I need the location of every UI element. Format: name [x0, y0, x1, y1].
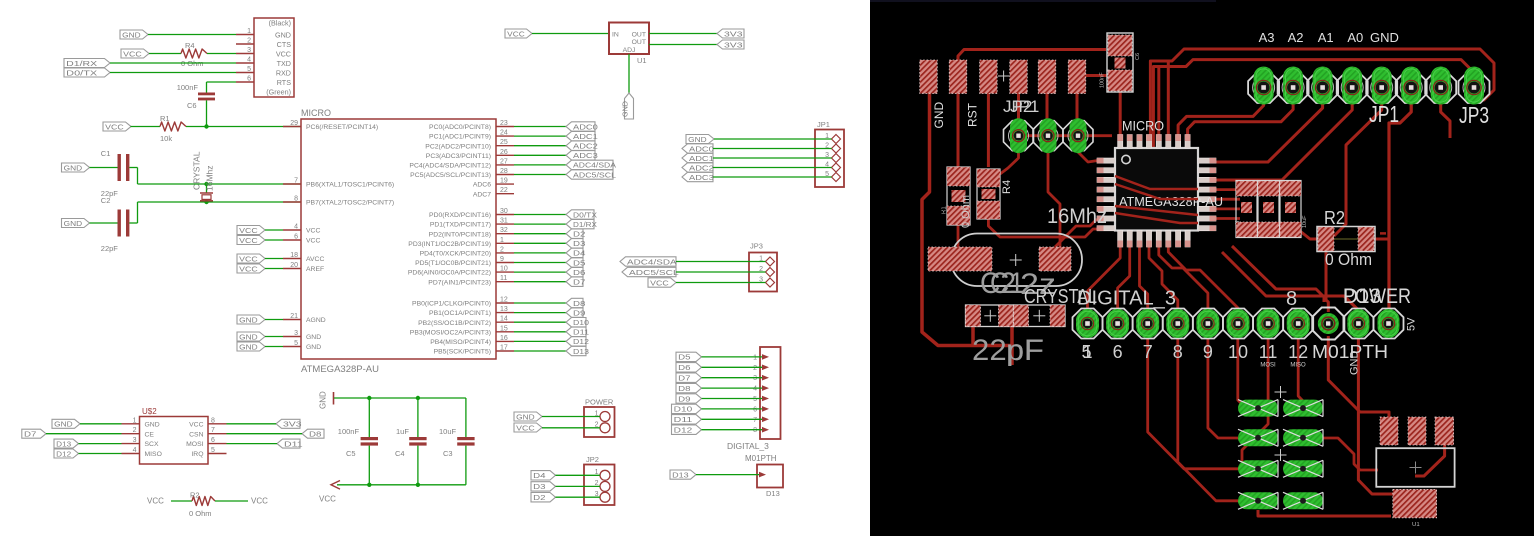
- svg-text:D5: D5: [573, 258, 585, 267]
- svg-text:PD4(T0/XCK/PCINT20): PD4(T0/XCK/PCINT20): [420, 251, 491, 258]
- svg-text:3V3: 3V3: [283, 420, 302, 429]
- svg-text:U$2: U$2: [142, 407, 157, 416]
- svg-text:6: 6: [753, 406, 757, 413]
- svg-text:JP1: JP1: [1010, 97, 1039, 116]
- svg-text:GND: GND: [516, 412, 535, 421]
- svg-text:PD1(TXD/PCINT17): PD1(TXD/PCINT17): [430, 222, 491, 229]
- svg-text:GND: GND: [319, 391, 328, 409]
- svg-text:C3: C3: [443, 449, 453, 458]
- svg-text:1: 1: [247, 28, 251, 35]
- svg-text:R1: R1: [160, 114, 170, 123]
- svg-text:10uF: 10uF: [1302, 215, 1308, 228]
- svg-text:MOSI: MOSI: [1260, 363, 1276, 369]
- svg-text:3: 3: [753, 375, 757, 382]
- svg-text:JP3: JP3: [750, 242, 763, 251]
- svg-text:11: 11: [500, 275, 507, 282]
- svg-text:9: 9: [1203, 342, 1213, 362]
- svg-text:GND: GND: [64, 163, 83, 172]
- svg-text:12: 12: [1288, 342, 1308, 362]
- svg-text:4: 4: [133, 447, 137, 454]
- svg-text:GND: GND: [275, 30, 291, 39]
- svg-text:D1/RX: D1/RX: [66, 59, 97, 68]
- svg-text:MICRO: MICRO: [1122, 118, 1164, 134]
- svg-text:pF: pF: [1006, 334, 1044, 367]
- svg-text:PB7(XTAL2/TOSC2/PCINT7): PB7(XTAL2/TOSC2/PCINT7): [306, 200, 394, 207]
- svg-text:21: 21: [290, 313, 298, 320]
- svg-text:DIGITAL_3: DIGITAL_3: [1077, 288, 1176, 310]
- svg-text:PD0(RXD/PCINT16): PD0(RXD/PCINT16): [429, 212, 491, 219]
- svg-text:GND: GND: [239, 315, 258, 324]
- svg-text:TXD: TXD: [277, 59, 291, 68]
- svg-text:8: 8: [294, 196, 298, 203]
- svg-text:GND: GND: [122, 30, 141, 39]
- svg-text:D11: D11: [284, 439, 303, 448]
- svg-text:3V3: 3V3: [724, 40, 743, 49]
- svg-text:100nF: 100nF: [338, 427, 360, 436]
- svg-text:AGND: AGND: [306, 317, 326, 324]
- svg-text:17: 17: [500, 345, 508, 352]
- svg-text:VCC: VCC: [516, 423, 535, 432]
- svg-text:PC2(ADC2/PCINT10): PC2(ADC2/PCINT10): [425, 143, 491, 150]
- svg-text:13: 13: [500, 306, 508, 313]
- svg-text:D9: D9: [573, 308, 585, 317]
- svg-text:A3: A3: [1259, 30, 1275, 45]
- svg-text:14: 14: [500, 316, 508, 323]
- svg-text:GND: GND: [1370, 30, 1399, 45]
- svg-text:PC4(ADC4/SDA/PCINT12): PC4(ADC4/SDA/PCINT12): [409, 163, 491, 170]
- svg-text:D10: D10: [674, 405, 693, 414]
- svg-text:ATMEGA328P-AU: ATMEGA328P-AU: [1119, 194, 1223, 209]
- svg-text:4: 4: [247, 57, 251, 64]
- svg-text:POWER: POWER: [585, 398, 614, 407]
- svg-text:9: 9: [500, 256, 504, 263]
- svg-text:RST: RST: [966, 102, 980, 127]
- svg-text:3: 3: [294, 330, 298, 337]
- svg-text:5: 5: [753, 396, 757, 403]
- svg-text:16Mhz: 16Mhz: [1047, 205, 1107, 228]
- svg-text:SCX: SCX: [145, 441, 159, 448]
- svg-text:D13: D13: [766, 489, 780, 498]
- svg-text:VCC: VCC: [189, 421, 203, 428]
- svg-text:VCC: VCC: [239, 226, 258, 235]
- svg-text:R1: R1: [942, 206, 948, 214]
- svg-text:1: 1: [753, 354, 757, 361]
- svg-text:A1: A1: [1318, 30, 1334, 45]
- svg-text:D13: D13: [56, 439, 71, 448]
- svg-text:GND: GND: [239, 342, 258, 351]
- svg-text:RTS: RTS: [277, 78, 291, 87]
- svg-text:15: 15: [500, 325, 508, 332]
- svg-text:PB5(SCK/PCINT5): PB5(SCK/PCINT5): [434, 349, 491, 356]
- svg-text:D13: D13: [573, 347, 589, 356]
- svg-text:10: 10: [1228, 342, 1248, 362]
- svg-text:24: 24: [500, 130, 508, 137]
- svg-text:27: 27: [500, 158, 508, 165]
- svg-text:0 Ohm: 0 Ohm: [960, 195, 972, 228]
- svg-text:7: 7: [211, 427, 215, 434]
- svg-text:D8: D8: [573, 299, 585, 308]
- svg-text:GND: GND: [306, 344, 321, 351]
- svg-text:ADC4/SDA: ADC4/SDA: [573, 161, 616, 170]
- svg-text:8: 8: [211, 417, 215, 424]
- svg-text:A2: A2: [1288, 30, 1304, 45]
- svg-text:D2: D2: [533, 493, 545, 502]
- svg-text:VCC: VCC: [239, 236, 258, 245]
- svg-text:7: 7: [1143, 342, 1153, 362]
- svg-text:C1: C1: [101, 149, 111, 158]
- svg-text:PC5(ADC5/SCL/PCINT13): PC5(ADC5/SCL/PCINT13): [410, 172, 491, 179]
- svg-text:VCC: VCC: [650, 278, 669, 287]
- svg-text:PD7(AIN1/PCINT23): PD7(AIN1/PCINT23): [428, 279, 491, 286]
- svg-text:C6: C6: [187, 101, 197, 110]
- svg-text:VCC: VCC: [123, 49, 142, 58]
- svg-text:1uF: 1uF: [396, 427, 409, 436]
- svg-text:R4: R4: [1001, 180, 1013, 194]
- svg-text:VCC: VCC: [147, 497, 164, 506]
- svg-text:C1: C1: [990, 267, 1024, 300]
- svg-text:4: 4: [294, 224, 298, 231]
- svg-text:6: 6: [1113, 342, 1123, 362]
- svg-text:PB0(ICP1/CLKO/PCINT0): PB0(ICP1/CLKO/PCINT0): [412, 301, 491, 308]
- svg-text:5V: 5V: [1406, 317, 1418, 331]
- svg-text:CTS: CTS: [277, 40, 292, 49]
- svg-text:C5: C5: [346, 449, 356, 458]
- svg-text:MISO: MISO: [1290, 363, 1306, 369]
- svg-text:D12: D12: [56, 449, 71, 458]
- svg-text:PC6(/RESET/PCINT14): PC6(/RESET/PCINT14): [306, 124, 378, 131]
- svg-text:PD5(T1/OC0B/PCINT21): PD5(T1/OC0B/PCINT21): [415, 260, 491, 267]
- svg-text:D13: D13: [1343, 285, 1381, 308]
- svg-text:D6: D6: [573, 268, 585, 277]
- svg-text:32: 32: [500, 227, 508, 234]
- svg-text:12: 12: [500, 297, 508, 304]
- svg-text:C6: C6: [1135, 53, 1141, 60]
- svg-text:PC1(ADC1/PCINT9): PC1(ADC1/PCINT9): [429, 134, 491, 141]
- svg-text:23: 23: [500, 120, 508, 127]
- svg-text:GND: GND: [1349, 351, 1361, 376]
- svg-text:D8: D8: [309, 430, 321, 439]
- svg-text:CRYSTAL: CRYSTAL: [192, 151, 202, 190]
- svg-text:VCC: VCC: [319, 495, 336, 504]
- svg-text:ADC2: ADC2: [689, 163, 714, 172]
- svg-text:ADC1: ADC1: [689, 154, 714, 163]
- svg-text:8: 8: [1173, 342, 1183, 362]
- svg-text:JP2: JP2: [586, 455, 599, 464]
- svg-text:28: 28: [500, 168, 508, 175]
- svg-text:5: 5: [247, 66, 251, 73]
- svg-text:5: 5: [294, 340, 298, 347]
- svg-text:OUT: OUT: [632, 39, 646, 46]
- svg-text:D2: D2: [573, 230, 585, 239]
- svg-text:MOSI: MOSI: [186, 441, 203, 448]
- svg-text:IRQ: IRQ: [191, 451, 203, 458]
- svg-text:D10: D10: [573, 318, 589, 327]
- svg-text:DIGITAL_3: DIGITAL_3: [727, 441, 769, 451]
- svg-text:D3: D3: [573, 239, 585, 248]
- svg-text:GND: GND: [64, 219, 83, 228]
- svg-text:D5: D5: [678, 353, 690, 362]
- svg-text:10: 10: [500, 266, 508, 273]
- svg-text:D0/TX: D0/TX: [66, 68, 97, 77]
- svg-text:ADC0: ADC0: [689, 144, 714, 153]
- svg-text:VCC: VCC: [276, 49, 291, 58]
- svg-text:ADC5/SCL: ADC5/SCL: [629, 268, 679, 277]
- svg-text:D0/TX: D0/TX: [573, 210, 597, 219]
- svg-text:26: 26: [500, 149, 508, 156]
- svg-text:16: 16: [500, 335, 508, 342]
- svg-text:GND: GND: [306, 334, 321, 341]
- svg-text:VCC: VCC: [507, 29, 525, 38]
- svg-text:CSN: CSN: [189, 431, 203, 438]
- svg-text:VCC: VCC: [306, 238, 320, 245]
- svg-text:D8: D8: [678, 384, 690, 393]
- svg-text:PB3(MOSI/OC2A/PCINT3): PB3(MOSI/OC2A/PCINT3): [410, 329, 491, 336]
- svg-text:MISO: MISO: [145, 451, 162, 458]
- svg-text:D1/RX: D1/RX: [573, 220, 597, 229]
- svg-text:GND: GND: [620, 101, 629, 117]
- svg-text:IN: IN: [612, 32, 619, 39]
- svg-text:D12: D12: [674, 426, 693, 435]
- svg-text:D11: D11: [573, 328, 589, 337]
- svg-text:18: 18: [290, 252, 298, 259]
- svg-text:JP1: JP1: [817, 120, 830, 129]
- svg-text:JP3: JP3: [1459, 102, 1489, 128]
- svg-text:VCC: VCC: [105, 122, 124, 131]
- svg-text:PD3(INT1/OC2B/PCINT19): PD3(INT1/OC2B/PCINT19): [408, 241, 491, 248]
- svg-text:ADC3: ADC3: [573, 151, 598, 160]
- svg-text:ADC3: ADC3: [689, 173, 714, 182]
- svg-text:D12: D12: [573, 337, 589, 346]
- svg-text:C2: C2: [101, 196, 111, 205]
- svg-text:6: 6: [294, 234, 298, 241]
- svg-text:ADC6: ADC6: [473, 182, 491, 189]
- svg-text:D7: D7: [24, 430, 36, 439]
- svg-text:D4: D4: [573, 249, 585, 258]
- svg-text:16Mhz: 16Mhz: [205, 165, 215, 191]
- svg-text:JP1: JP1: [1369, 101, 1399, 127]
- svg-text:AVCC: AVCC: [306, 256, 324, 263]
- svg-text:C4: C4: [395, 449, 405, 458]
- svg-text:D7: D7: [573, 278, 585, 287]
- svg-text:0 Ohm: 0 Ohm: [1325, 250, 1372, 269]
- svg-text:PB6(XTAL1/TOSC1/PCINT6): PB6(XTAL1/TOSC1/PCINT6): [306, 182, 394, 189]
- svg-text:10uF: 10uF: [439, 427, 457, 436]
- svg-text:(Green): (Green): [266, 87, 291, 96]
- svg-text:2: 2: [133, 427, 137, 434]
- svg-text:5: 5: [1081, 342, 1091, 362]
- svg-text:1: 1: [133, 417, 137, 424]
- svg-text:AREF: AREF: [306, 266, 324, 273]
- svg-text:ATMEGA328P-AU: ATMEGA328P-AU: [301, 364, 379, 375]
- svg-text:D9: D9: [678, 394, 690, 403]
- svg-text:VCC: VCC: [239, 264, 258, 273]
- svg-text:D7: D7: [678, 374, 690, 383]
- svg-text:GND: GND: [145, 421, 160, 428]
- svg-text:PD2(INT0/PCINT18): PD2(INT0/PCINT18): [429, 231, 491, 238]
- svg-text:100nF: 100nF: [1100, 72, 1106, 88]
- svg-text:5: 5: [211, 447, 215, 454]
- svg-text:PB2(SS/OC1B/PCINT2): PB2(SS/OC1B/PCINT2): [418, 320, 491, 327]
- svg-text:29: 29: [290, 120, 298, 127]
- svg-text:100nF: 100nF: [177, 83, 199, 92]
- svg-text:VCC: VCC: [239, 254, 258, 263]
- svg-text:0 Ohm: 0 Ohm: [189, 509, 212, 518]
- svg-text:U1: U1: [1412, 522, 1420, 528]
- svg-text:OUT: OUT: [632, 32, 646, 39]
- svg-text:CE: CE: [145, 431, 155, 438]
- svg-text:GND: GND: [239, 332, 258, 341]
- svg-text:A0: A0: [1347, 30, 1363, 45]
- svg-text:ADC7: ADC7: [473, 191, 491, 198]
- svg-text:D11: D11: [674, 415, 693, 424]
- svg-text:10k: 10k: [160, 134, 172, 143]
- svg-text:PB1(OC1A/PCINT1): PB1(OC1A/PCINT1): [429, 310, 491, 317]
- svg-text:31: 31: [500, 218, 508, 225]
- svg-text:11: 11: [1259, 342, 1278, 362]
- svg-text:ADC0: ADC0: [573, 122, 598, 131]
- svg-text:2: 2: [247, 38, 251, 45]
- svg-text:PC3(ADC3/PCINT11): PC3(ADC3/PCINT11): [426, 153, 491, 160]
- svg-text:4: 4: [753, 386, 757, 393]
- svg-text:(Black): (Black): [269, 18, 291, 27]
- svg-text:ADC2: ADC2: [573, 142, 598, 151]
- svg-text:D13: D13: [672, 470, 689, 479]
- svg-text:8: 8: [1286, 288, 1297, 310]
- svg-text:R2: R2: [1324, 208, 1345, 228]
- svg-text:U1: U1: [637, 56, 647, 65]
- svg-text:19: 19: [500, 178, 508, 185]
- svg-text:2: 2: [753, 365, 757, 372]
- svg-text:PB4(MISO/PCINT4): PB4(MISO/PCINT4): [430, 339, 491, 346]
- svg-text:GND: GND: [932, 102, 946, 129]
- svg-text:D3: D3: [533, 482, 545, 491]
- svg-text:1: 1: [500, 237, 504, 244]
- svg-text:2: 2: [500, 246, 504, 253]
- svg-text:3: 3: [247, 47, 251, 54]
- svg-text:8: 8: [753, 427, 757, 434]
- svg-text:ADC5/SCL: ADC5/SCL: [573, 170, 616, 179]
- svg-text:PD6(AIN0/OC0A/PCINT22): PD6(AIN0/OC0A/PCINT22): [408, 270, 491, 277]
- svg-text:R4: R4: [185, 41, 195, 50]
- svg-text:MICRO: MICRO: [301, 108, 331, 118]
- svg-text:M01PTH: M01PTH: [745, 454, 777, 463]
- svg-text:25: 25: [500, 139, 508, 146]
- svg-text:VCC: VCC: [306, 228, 320, 235]
- svg-text:30: 30: [500, 208, 508, 215]
- svg-text:3V3: 3V3: [724, 29, 743, 38]
- svg-text:R2: R2: [190, 491, 200, 500]
- svg-text:20: 20: [290, 262, 298, 269]
- svg-text:7: 7: [294, 178, 298, 185]
- svg-text:22pF: 22pF: [101, 244, 119, 253]
- svg-text:22: 22: [500, 187, 508, 194]
- svg-text:VCC: VCC: [251, 497, 268, 506]
- svg-text:6: 6: [247, 76, 251, 83]
- svg-text:ADC4/SDA: ADC4/SDA: [627, 257, 677, 266]
- svg-text:GND: GND: [688, 135, 707, 144]
- svg-text:3: 3: [133, 437, 137, 444]
- svg-text:7: 7: [753, 417, 757, 424]
- svg-text:ADJ: ADJ: [623, 47, 636, 54]
- svg-text:D6: D6: [678, 363, 690, 372]
- svg-text:ADC1: ADC1: [573, 132, 598, 141]
- svg-text:RXD: RXD: [276, 68, 291, 77]
- svg-text:6: 6: [211, 437, 215, 444]
- svg-text:GND: GND: [54, 420, 73, 429]
- svg-text:PC0(ADC0/PCINT8): PC0(ADC0/PCINT8): [429, 124, 491, 131]
- svg-text:D4: D4: [533, 471, 545, 480]
